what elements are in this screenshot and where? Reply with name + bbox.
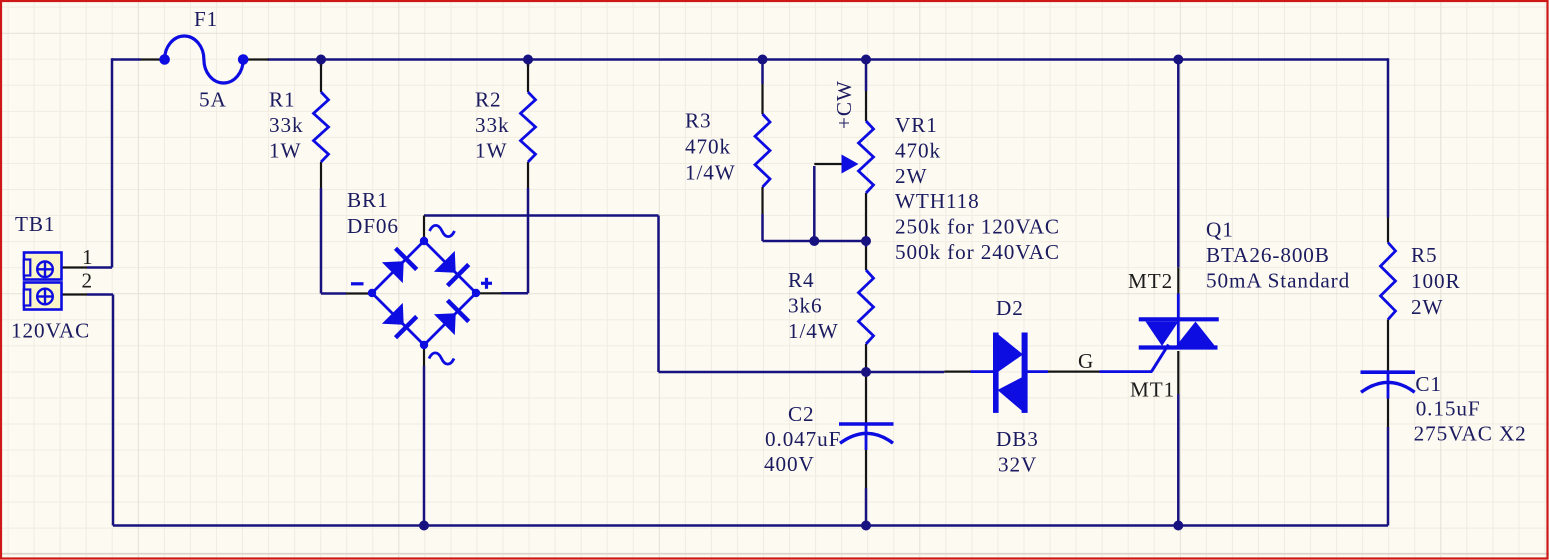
junction wiper [809,236,819,246]
svg-text:DF06: DF06 [347,214,399,238]
wire R3 bottom to VR1 bottom [761,214,764,241]
wire C2 below to bottom rail [865,488,868,526]
wire MT1 to bottom rail [1177,394,1180,526]
junction VR1/R4 [861,236,871,246]
pin lead D2 left [944,371,970,373]
junction Q1 MT2 top [1173,55,1183,65]
svg-text:2W: 2W [895,164,927,188]
svg-text:1/4W: 1/4W [788,319,839,343]
pin lead R1 bottom [320,162,322,188]
wire TB1 pin 2 to bottom rail [87,293,113,296]
svg-text:R3: R3 [685,109,712,133]
svg-text:470k: 470k [895,138,941,162]
pin lead R2 top [527,64,529,92]
svg-text:D2: D2 [996,296,1024,320]
pin lead TB1 pin1 [62,266,88,268]
pin lead VR1 top [865,91,867,121]
pin lead BR1 ac top [423,216,425,242]
pin lead BR1 plus [477,292,501,294]
svg-text:275VAC X2: 275VAC X2 [1414,422,1527,446]
pin lead Q1 gate [1074,371,1100,373]
fuse F1 [159,36,248,83]
pin lead VR1 bottom [865,193,867,241]
wire R2 top stub [527,60,530,67]
bridge rectifier BR1 [351,225,492,364]
resistor R4 [859,270,874,344]
wire gate net to D2 [866,371,944,374]
svg-text:3k6: 3k6 [788,294,822,318]
svg-text:R5: R5 [1411,243,1438,267]
pin lead fuse right [247,58,269,60]
svg-text:C2: C2 [788,402,815,426]
pin lead fuse left [141,58,162,60]
pin lead D2 right [1048,371,1074,373]
pin lead R4 bottom [865,344,867,372]
svg-text:32V: 32V [998,453,1037,477]
triac Q1 [1100,294,1219,372]
svg-text:TB1: TB1 [15,212,55,236]
svg-text:WTH118: WTH118 [895,189,980,213]
junction VR1 top [861,55,871,65]
svg-text:120VAC: 120VAC [11,319,90,343]
svg-text:5A: 5A [199,88,227,112]
resistor R3 [755,114,770,187]
diac D2 [971,333,1049,413]
wire top rail main [268,58,1389,61]
svg-text:BR1: BR1 [347,188,389,212]
wire left rail down to TB1 pin 1 [111,58,114,267]
wire right rail down to R5 [1387,58,1390,217]
svg-text:50mA Standard: 50mA Standard [1206,269,1350,293]
wire top rail left segment [112,58,141,61]
capacitor C2 [839,424,894,450]
svg-text:R2: R2 [475,88,502,112]
resistor R5 [1381,243,1396,320]
pin lead R3 top [761,84,763,114]
svg-text:33k: 33k [269,113,303,137]
pin lead R5 top [1387,218,1389,243]
svg-text:MT1: MT1 [1130,378,1175,402]
pin lead Q1 MT2 [1177,267,1179,293]
pin lead R3 bottom [761,187,763,214]
wire VR1 top stub [865,60,868,92]
svg-text:C1: C1 [1415,372,1442,396]
svg-text:1/4W: 1/4W [685,161,736,185]
wire BR1 ac bottom to bottom rail [423,366,426,526]
resistor R1 [314,92,329,162]
wire BR1 ac top to gate net [424,214,659,217]
junction R2 top [523,55,533,65]
svg-text:Q1: Q1 [1206,218,1234,242]
junction BR1 bottom rail [419,521,429,531]
junction C2 bottom rail [861,521,871,531]
pin lead TB1 pin2 [62,293,88,295]
pin lead R2 bottom [527,162,529,188]
svg-text:0.15uF: 0.15uF [1416,396,1481,420]
junction R1 top [316,55,326,65]
wire VR1 wiper down [813,166,816,241]
pin lead R1 top [320,64,322,92]
pin lead R4 top [865,247,867,270]
svg-text:F1: F1 [194,7,218,31]
svg-text:2: 2 [82,269,94,293]
pin lead C2 top [865,373,867,424]
pin lead R5 bottom [1387,320,1389,373]
svg-text:BTA26-800B: BTA26-800B [1206,243,1330,267]
wire R1 down to BR1 minus [320,188,323,294]
junction MT1 bottom rail [1173,521,1183,531]
svg-text:1: 1 [82,245,94,269]
resistor R2 [521,92,536,162]
svg-text:33k: 33k [475,113,509,137]
svg-text:VR1: VR1 [895,113,938,137]
wire R3 top stub [761,60,764,85]
svg-text:400V: 400V [764,452,815,476]
wire MT2 from top rail [1177,60,1180,268]
svg-text:R4: R4 [788,268,815,292]
svg-text:500k for 240VAC: 500k for 240VAC [895,240,1060,264]
svg-text:DB3: DB3 [996,427,1039,451]
svg-text:250k for 120VAC: 250k for 120VAC [895,215,1060,239]
junction R4/C2/gate [861,367,871,377]
svg-text:+CW: +CW [832,80,856,129]
sheet inner edge line [0,553,1549,555]
pin lead BR1 ac bottom [423,345,425,366]
pin lead BR1 minus [346,292,371,294]
svg-text:MT2: MT2 [1128,269,1173,293]
pin lead VR1 wiper [814,163,841,165]
wire bottom rail [113,524,1388,527]
potentiometer VR1 [859,121,874,193]
wire R4 top stub [865,241,868,247]
svg-text:0.047uF: 0.047uF [765,427,841,451]
svg-text:470k: 470k [685,135,731,159]
wire R1 top stub [320,60,323,67]
svg-text:2W: 2W [1411,295,1443,319]
svg-text:G: G [1078,349,1094,373]
wire R2 down to BR1 plus [527,188,530,293]
svg-text:1W: 1W [269,139,301,163]
svg-text:100R: 100R [1411,269,1461,293]
pin lead C2 bottom [865,450,867,488]
wire C1 up from bottom rail [1387,427,1390,526]
pin lead C1 bottom [1387,399,1389,428]
capacitor C1 [1361,372,1416,398]
pin lead Q1 MT1 [1177,351,1179,394]
junction R3 top [758,55,768,65]
svg-text:R1: R1 [269,88,296,112]
svg-text:1W: 1W [475,139,507,163]
terminal block TB1 [24,253,62,310]
